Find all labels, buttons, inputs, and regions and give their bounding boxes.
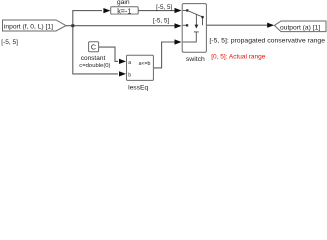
svg-text:a: a: [128, 60, 131, 66]
svg-text:outport (a) [1]: outport (a) [1]: [280, 24, 320, 31]
svg-text:[-5, 5]: [-5, 5]: [156, 4, 172, 11]
svg-text:[-5, 5]: [-5, 5]: [153, 18, 169, 25]
svg-text:gain: gain: [117, 0, 130, 6]
svg-text:[0, 5]: Actual range: [0, 5]: Actual range: [211, 53, 266, 60]
svg-text:C: C: [91, 43, 96, 52]
svg-text:a<=b: a<=b: [139, 61, 151, 67]
svg-text:c=double(0): c=double(0): [79, 63, 110, 69]
svg-text:lessEq: lessEq: [128, 85, 148, 92]
svg-text:k=-1: k=-1: [117, 6, 131, 15]
svg-text:b: b: [128, 72, 131, 78]
svg-text:inport (f, 0, L) [1]: inport (f, 0, L) [1]: [4, 24, 53, 31]
svg-text:constant: constant: [81, 55, 106, 62]
svg-text:[-5, 5]: propagated conservat: [-5, 5]: propagated conservative range: [209, 37, 325, 44]
svg-text:[-5, 5]: [-5, 5]: [1, 39, 18, 46]
svg-text:switch: switch: [186, 56, 205, 63]
